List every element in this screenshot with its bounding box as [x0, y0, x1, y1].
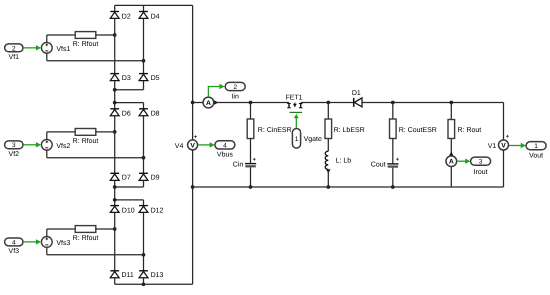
node Lb bottom — [326, 185, 330, 189]
node cathode line phase3 — [113, 198, 117, 202]
diode D1 — [352, 90, 362, 107]
wire cathode line phase2 — [115, 102, 144, 104]
svg-text:1: 1 — [295, 136, 299, 143]
wire col2 kline3 stub — [143, 200, 145, 206]
svg-text:1: 1 — [534, 143, 538, 150]
svg-text:2: 2 — [233, 84, 237, 91]
wire right vertical upper — [503, 103, 505, 140]
wire col2 D9 anode stub — [143, 180, 145, 187]
wire col1 D10-D11 — [114, 212, 116, 270]
ammeter A (Iin) — [203, 97, 214, 108]
svg-text:V1: V1 — [488, 143, 497, 150]
port Iin — [225, 82, 245, 100]
svg-text:D2: D2 — [122, 13, 131, 20]
node Cin bottom — [249, 185, 253, 189]
wire ammeter to bottom rail — [450, 167, 452, 187]
wire col1 D6-D7 — [114, 116, 116, 174]
signal arrow Vf3 to Vfs3 — [23, 239, 41, 244]
diode D6 — [110, 109, 131, 118]
svg-text:Vbus: Vbus — [217, 150, 233, 158]
resistor R: Rfout (Vfs1) — [73, 32, 99, 48]
wire col2 D8-D9 — [143, 116, 145, 174]
port Vgate — [292, 129, 322, 149]
wire top bus stub col1 — [114, 5, 116, 11]
port Vf3 — [5, 238, 23, 255]
svg-text:D9: D9 — [151, 175, 160, 182]
wire resistor to bridge (Vfs1) — [96, 34, 115, 36]
wire Vfs1 top — [47, 35, 75, 42]
svg-text:FET1: FET1 — [285, 95, 302, 102]
svg-text:R: Rfout: R: Rfout — [73, 137, 99, 145]
svg-text:Vout: Vout — [529, 152, 543, 159]
svg-text:V: V — [190, 142, 195, 149]
svg-text:D4: D4 — [151, 13, 160, 20]
node anode join phase2 — [113, 185, 117, 189]
svg-text:V4: V4 — [175, 143, 184, 150]
svg-text:D10: D10 — [122, 208, 135, 215]
port Vout — [526, 142, 546, 160]
wire col1 D7-D10 — [114, 180, 116, 205]
node Lb tap — [326, 101, 330, 105]
port Irout — [471, 157, 491, 176]
resistor R: Rfout (Vfs2) — [73, 129, 99, 145]
svg-text:Vfs3: Vfs3 — [56, 239, 70, 247]
node tap left Vfs3 — [113, 227, 117, 231]
diode D11 — [110, 271, 134, 279]
voltage source Vfs1 — [41, 42, 70, 53]
wire main bus upper (+) — [192, 5, 194, 139]
signal arrow Irout — [457, 159, 470, 164]
wire Vfs3 bottom — [47, 247, 144, 255]
node tap right Vfs3 — [142, 253, 146, 257]
wire col2 D13-bottom bus — [143, 278, 145, 285]
svg-text:R: CinESR: R: CinESR — [258, 126, 292, 134]
svg-text:4: 4 — [12, 239, 16, 246]
voltmeter V4 — [175, 134, 198, 150]
svg-text:D12: D12 — [151, 208, 164, 215]
wire Cin to bottom rail — [250, 167, 252, 187]
wire Rout to ammeter — [450, 139, 452, 156]
capacitor Cin — [233, 157, 256, 168]
current direction arrow Iin — [214, 100, 218, 104]
diode D8 — [139, 109, 160, 118]
node bottom rail tap — [191, 185, 195, 189]
node Iin tap — [191, 101, 195, 105]
capacitor Cout — [371, 157, 399, 168]
node tap right Vfs1 — [142, 59, 146, 63]
signal line Iin — [208, 84, 224, 97]
svg-text:R: Rout: R: Rout — [458, 127, 482, 134]
diode D2 — [110, 12, 131, 21]
resistor R: CoutESR — [390, 119, 437, 139]
svg-text:Vgate: Vgate — [304, 136, 322, 143]
voltage source Vfs2 — [41, 139, 70, 150]
svg-text:R: Rfout: R: Rfout — [73, 234, 99, 242]
svg-text:A: A — [206, 100, 211, 107]
signal arrow Vf1 to Vfs1 — [23, 45, 41, 50]
resistor R: CinESR — [247, 119, 291, 139]
diode D12 — [139, 206, 163, 215]
wire col1 D11-bottom bus — [114, 278, 116, 285]
svg-text:D3: D3 — [122, 75, 131, 82]
svg-text:Vf3: Vf3 — [9, 247, 20, 255]
node tap left Vfs2 — [113, 130, 117, 134]
svg-text:3: 3 — [479, 159, 483, 166]
current direction arrow Irout — [449, 152, 453, 156]
wire bottom bus (-) — [115, 283, 193, 285]
wire right vertical lower — [503, 150, 505, 187]
svg-text:D6: D6 — [122, 111, 131, 118]
signal line Vgate to gate — [294, 114, 299, 129]
node Rout tap — [449, 101, 453, 105]
svg-text:2: 2 — [12, 45, 16, 52]
wire CinESR to Cin — [250, 139, 252, 164]
port Vbus — [215, 141, 235, 159]
wire top bus stub col2 — [143, 5, 145, 11]
wire col1 D3-D6 — [114, 81, 116, 109]
svg-text:L: Lb: L: Lb — [336, 156, 352, 164]
svg-text:D1: D1 — [352, 90, 361, 97]
svg-text:R: Rfout: R: Rfout — [73, 40, 99, 48]
svg-text:3: 3 — [12, 142, 16, 149]
resistor R: Rout — [448, 120, 481, 139]
svg-text:D8: D8 — [151, 111, 160, 118]
node Cout bottom — [391, 185, 395, 189]
signal arrow V1 to Vout — [509, 143, 526, 148]
svg-text:R: CoutESR: R: CoutESR — [399, 127, 437, 134]
wire col2 D4-D5 — [143, 18, 145, 73]
wire bus to ammeter Iin — [193, 102, 203, 104]
wire Vfs3 top — [47, 229, 75, 237]
wire main bus lower (-) — [192, 150, 194, 284]
wire col2 D5 anode stub — [143, 81, 145, 90]
wire rail to Rout — [450, 103, 452, 120]
wire cathode line phase3 — [115, 199, 144, 201]
wire Vfs1 bottom — [47, 53, 144, 60]
svg-text:D13: D13 — [151, 272, 164, 279]
ammeter A (Irout) — [446, 156, 457, 167]
svg-text:+: + — [396, 157, 399, 163]
diode D9 — [139, 173, 160, 181]
port Vf1 — [5, 44, 23, 61]
wire top bus (+) — [115, 4, 193, 6]
wire anode join phase2 — [115, 186, 144, 188]
wire resistor to bridge (Vfs3) — [96, 228, 115, 230]
wire anode join phase1 — [115, 89, 144, 91]
wire rail to CoutESR — [392, 103, 394, 120]
svg-text:+: + — [194, 134, 197, 140]
wire bottom rail — [193, 186, 504, 188]
resistor R: LbESR — [325, 119, 365, 139]
svg-text:R: LbESR: R: LbESR — [334, 126, 365, 134]
diode D5 — [139, 74, 160, 82]
node anode join phase1 — [113, 88, 117, 92]
node CoutESR tap — [391, 101, 395, 105]
resistor R: Rfout (Vfs3) — [73, 226, 99, 242]
wire CoutESR to Cout — [392, 139, 394, 164]
wire Cout to bottom rail — [392, 168, 394, 187]
diode D13 — [139, 271, 163, 279]
wire Vfs2 bottom — [47, 150, 144, 158]
svg-text:V: V — [501, 143, 506, 150]
node bottom bus col2 — [142, 282, 146, 286]
node CinESR tap — [249, 101, 253, 105]
diode D3 — [110, 74, 131, 82]
wire rail to CinESR — [250, 103, 252, 120]
svg-text:Cout: Cout — [371, 162, 386, 169]
svg-text:Irout: Irout — [474, 169, 488, 176]
svg-text:Vfs1: Vfs1 — [56, 45, 70, 53]
svg-text:Vf2: Vf2 — [9, 150, 20, 158]
voltmeter V1 — [488, 134, 509, 150]
svg-text:Vfs2: Vfs2 — [56, 142, 70, 150]
signal arrow Vf2 to Vfs2 — [23, 142, 41, 147]
diode D7 — [110, 173, 131, 181]
current direction arrow Lb — [326, 169, 330, 173]
svg-text:Vf1: Vf1 — [9, 53, 20, 61]
svg-text:Cin: Cin — [233, 160, 244, 168]
port Vf2 — [5, 141, 23, 158]
node tap left Vfs1 — [113, 33, 117, 37]
svg-text:D11: D11 — [122, 272, 134, 279]
wire resistor to bridge (Vfs2) — [96, 131, 115, 133]
node cathode line phase2 — [113, 101, 117, 105]
voltage source Vfs3 — [41, 237, 70, 248]
signal arrow V4 to Vbus — [198, 142, 215, 147]
svg-text:A: A — [449, 159, 454, 166]
wire Vfs2 top — [47, 132, 75, 140]
svg-text:D5: D5 — [151, 75, 160, 82]
wire Lb to bottom rail — [327, 170, 329, 188]
wire col1 D2-D3 — [114, 18, 116, 73]
svg-text:4: 4 — [223, 142, 227, 149]
svg-text:Iin: Iin — [231, 93, 239, 101]
inductor L: Lb — [325, 151, 351, 169]
node tap right Vfs2 — [142, 156, 146, 160]
wire col2 kline2 stub — [143, 103, 145, 109]
svg-text:+: + — [506, 134, 509, 140]
mosfet FET1 — [285, 95, 302, 113]
wire rail to LbESR — [327, 103, 329, 120]
svg-text:+: + — [253, 157, 256, 163]
diode D4 — [139, 12, 160, 21]
wire LbESR to Lb — [327, 139, 329, 152]
wire top rail — [214, 102, 504, 104]
wire col2 D12-D13 — [143, 212, 145, 270]
svg-text:D7: D7 — [122, 175, 131, 182]
diode D10 — [110, 206, 134, 215]
